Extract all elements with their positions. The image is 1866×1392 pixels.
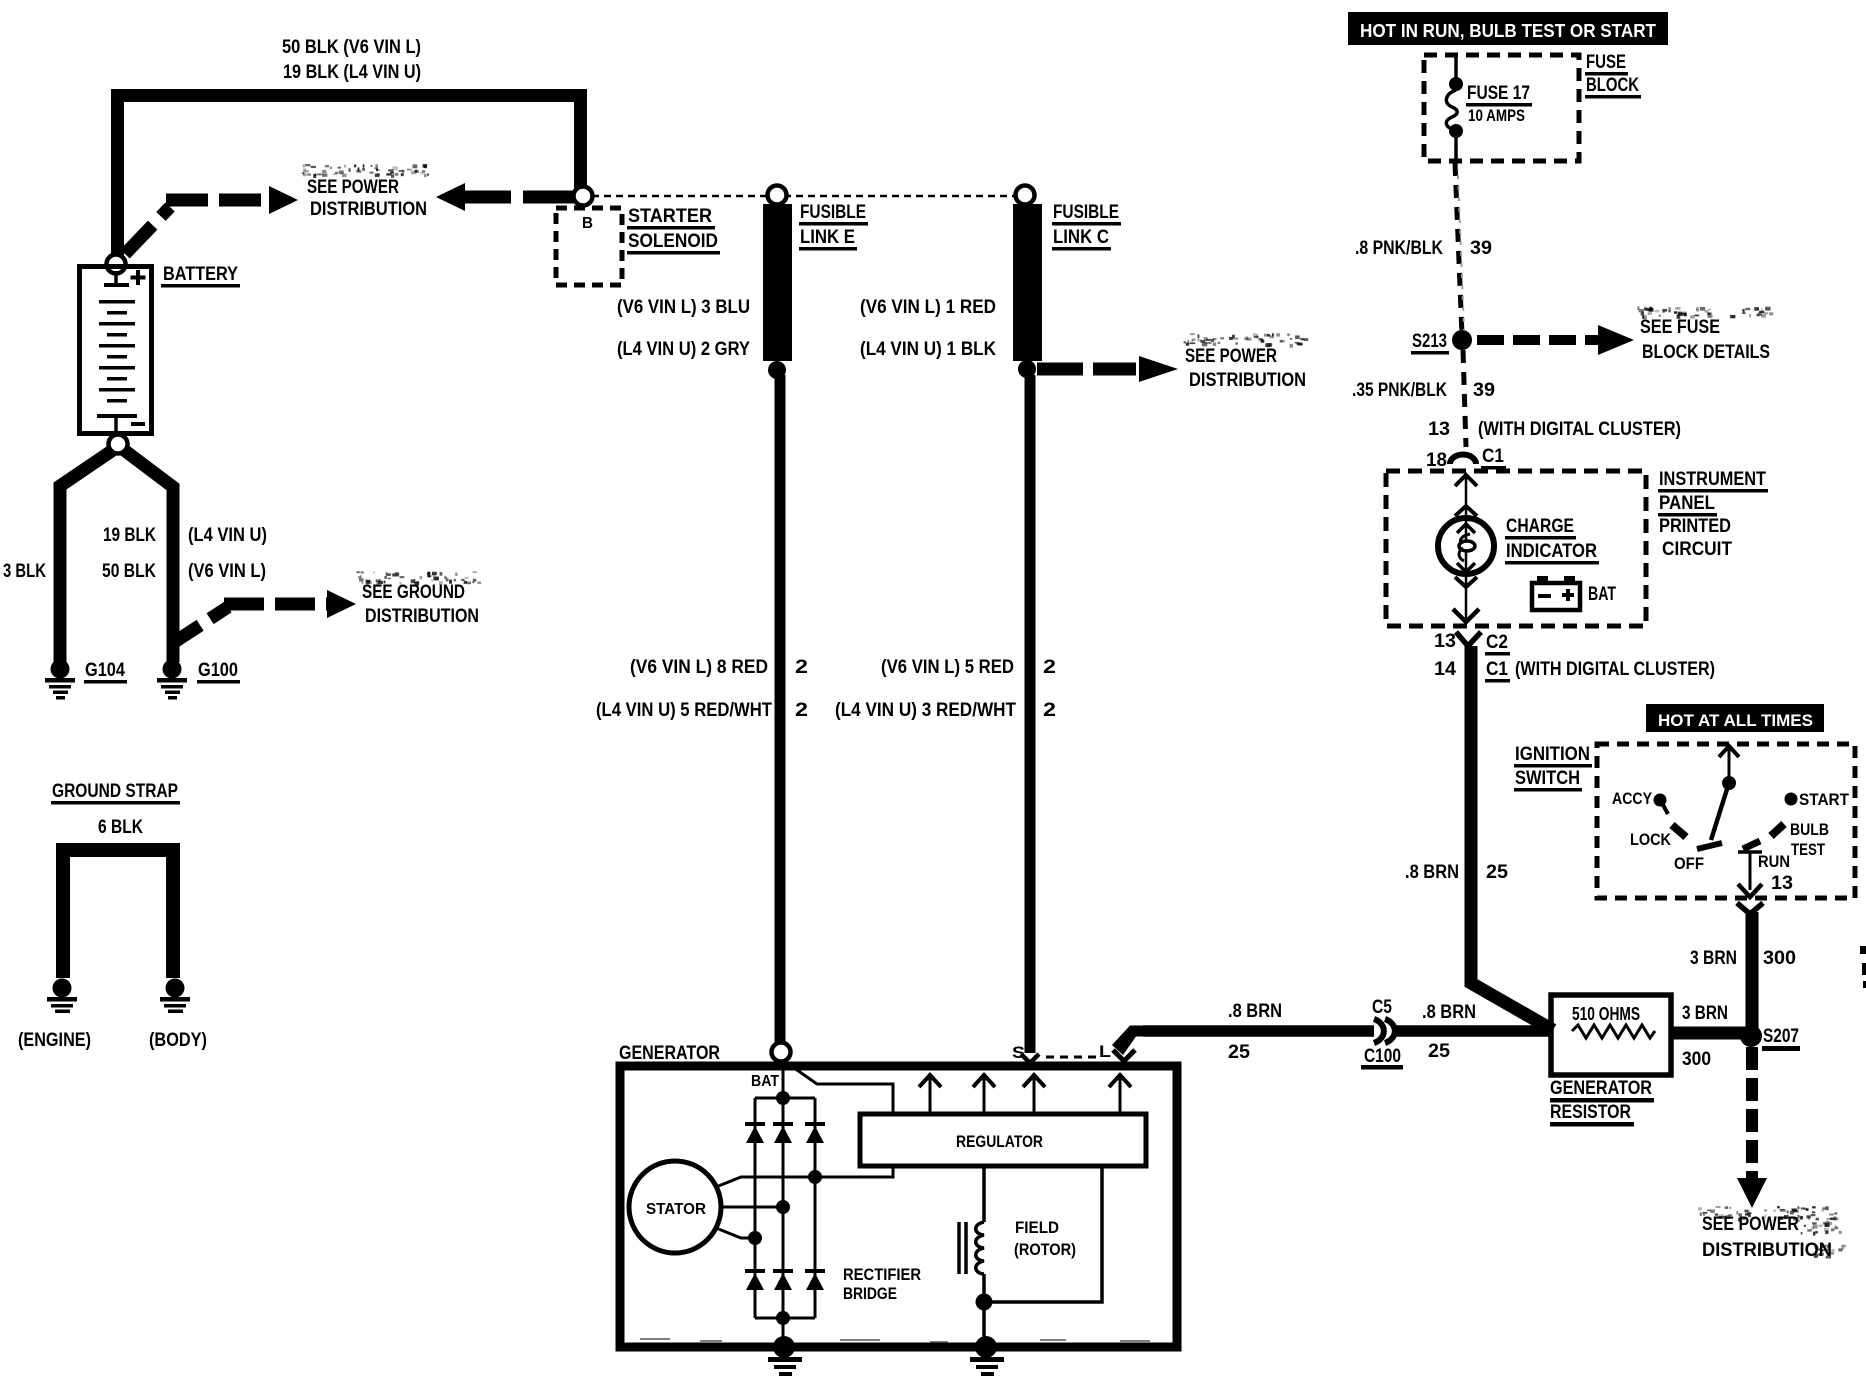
svg-text:TEST: TEST xyxy=(1791,840,1825,859)
field coil L1 xyxy=(976,1222,984,1274)
connector C2 V symbol xyxy=(1456,632,1481,646)
generator box xyxy=(620,1066,1177,1347)
svg-text:DISTRIBUTION: DISTRIBUTION xyxy=(1702,1240,1832,1261)
svg-text:.8 PNK/BLK: .8 PNK/BLK xyxy=(1355,238,1443,259)
svg-text:2: 2 xyxy=(1043,700,1056,721)
wire ground strap xyxy=(63,850,173,978)
wire field junction to ground xyxy=(982,1302,986,1345)
svg-text:(V6 VIN L) 5 RED: (V6 VIN L) 5 RED xyxy=(881,657,1014,678)
svg-text:BLOCK: BLOCK xyxy=(1586,75,1639,96)
resistor zigzag xyxy=(1572,1025,1655,1038)
svg-text:50 BLK: 50 BLK xyxy=(102,561,156,582)
fuse F17 bottom terminal xyxy=(1449,124,1463,138)
svg-text:SOLENOID: SOLENOID xyxy=(628,231,718,252)
node junction below fusible link E xyxy=(768,361,786,379)
svg-text:INDICATOR: INDICATOR xyxy=(1506,541,1597,562)
regulator S terminal arrow xyxy=(1033,1077,1036,1112)
svg-text:3 BRN: 3 BRN xyxy=(1682,1003,1728,1024)
svg-text:OFF: OFF xyxy=(1674,854,1704,873)
svg-text:13: 13 xyxy=(1771,873,1793,894)
svg-text:SWITCH: SWITCH xyxy=(1515,768,1580,789)
svg-text:2: 2 xyxy=(795,657,808,678)
svg-text:(ROTOR): (ROTOR) xyxy=(1014,1240,1076,1259)
battery plates xyxy=(97,300,137,418)
ignition feed arrow up xyxy=(1728,748,1731,779)
wire dashed from solenoid node to see power distribution xyxy=(463,191,577,204)
fuse F17 lead top xyxy=(1454,57,1458,80)
arrow see power distribution (bottom) xyxy=(1737,1178,1767,1208)
node fusible link E top xyxy=(768,186,787,205)
svg-text:FUSE: FUSE xyxy=(1586,52,1626,73)
svg-text:HOT IN RUN, BULB TEST OR START: HOT IN RUN, BULB TEST OR START xyxy=(1360,21,1656,41)
diode D6 xyxy=(805,1269,825,1290)
rectifier column 2 xyxy=(782,1098,785,1318)
svg-text:S213: S213 xyxy=(1412,331,1447,352)
svg-text:(L4 VIN U) 1 BLK: (L4 VIN U) 1 BLK xyxy=(860,339,996,360)
smudge above SEE POWER xyxy=(302,164,429,178)
svg-text:25: 25 xyxy=(1428,1041,1450,1062)
svg-text:19 BLK: 19 BLK xyxy=(103,525,156,546)
rectifier top rail xyxy=(755,1097,815,1100)
diode D1 xyxy=(745,1122,765,1143)
svg-text:STARTER: STARTER xyxy=(628,206,712,227)
svg-text:ACCY: ACCY xyxy=(1612,789,1653,808)
wire column 3 to regulator xyxy=(815,1166,893,1177)
svg-text:10 AMPS: 10 AMPS xyxy=(1468,106,1525,125)
svg-text:CHARGE: CHARGE xyxy=(1506,516,1574,537)
arrow down at ignition box bottom xyxy=(1738,884,1762,897)
wire battery negative to G100 xyxy=(124,450,173,662)
instrument panel printed circuit box xyxy=(1386,471,1646,626)
svg-text:SEE FUSE: SEE FUSE xyxy=(1640,317,1720,338)
ignition switch box xyxy=(1597,744,1855,898)
svg-text:BULB: BULB xyxy=(1790,820,1829,839)
wire dashed bus solenoid B to fusible links xyxy=(592,195,1022,198)
page edge marks xyxy=(1860,946,1866,988)
ground G100 xyxy=(157,660,187,700)
regulator sense arrow 2 xyxy=(983,1077,986,1112)
ground (body) xyxy=(160,979,190,1014)
connector V at L terminal xyxy=(1113,1050,1135,1061)
charge indicator bulb circle xyxy=(1438,518,1494,574)
svg-text:(V6 VIN L) 1 RED: (V6 VIN L) 1 RED xyxy=(860,297,996,318)
regulator box xyxy=(860,1114,1146,1166)
svg-text:HOT AT ALL TIMES: HOT AT ALL TIMES xyxy=(1658,711,1813,730)
svg-text:300: 300 xyxy=(1763,948,1796,969)
svg-text:SEE POWER: SEE POWER xyxy=(307,177,399,198)
stator lead 2 xyxy=(721,1206,783,1209)
wire dashed to see power distribution (from battery) xyxy=(125,207,170,254)
arrow to see power distribution (right, pointing left) xyxy=(436,183,465,211)
svg-text:6 BLK: 6 BLK xyxy=(98,817,143,838)
svg-text:SEE POWER: SEE POWER xyxy=(1185,346,1277,367)
svg-text:39: 39 xyxy=(1473,380,1495,401)
arrow out of charge indicator (bottom) xyxy=(1465,576,1468,620)
battery minus sign xyxy=(131,422,145,426)
wire dashed S207 to see power distribution xyxy=(1746,1047,1758,1180)
node splice S213 xyxy=(1452,330,1472,350)
node battery positive terminal xyxy=(107,255,126,274)
svg-text:BATTERY: BATTERY xyxy=(163,264,238,285)
svg-text:18: 18 xyxy=(1426,450,1447,471)
stator lead 3 xyxy=(716,1228,755,1238)
wire hatched fuse block to S213 xyxy=(1455,163,1462,335)
stator lead 1 xyxy=(716,1177,815,1187)
fuse F17 element xyxy=(1446,90,1457,130)
svg-text:(BODY): (BODY) xyxy=(149,1030,207,1051)
ignition lever xyxy=(1711,786,1728,840)
fusible link C bar xyxy=(1013,204,1042,361)
svg-text:FIELD: FIELD xyxy=(1015,1218,1059,1237)
position tick LOCK xyxy=(1672,825,1686,837)
svg-text:RESISTOR: RESISTOR xyxy=(1550,1102,1631,1123)
wire .8 BRN C100 to generator resistor xyxy=(1395,1025,1552,1037)
svg-text:RECTIFIER: RECTIFIER xyxy=(843,1265,921,1284)
ground (engine) xyxy=(47,979,77,1014)
position tick RUN contact xyxy=(1743,841,1760,849)
svg-text:19 BLK (L4 VIN U): 19 BLK (L4 VIN U) xyxy=(283,62,421,83)
wire battery positive to starter solenoid B xyxy=(118,96,581,263)
arrow see fuse block details xyxy=(1598,325,1634,355)
svg-text:INSTRUMENT: INSTRUMENT xyxy=(1659,469,1766,490)
wire hatched S213 to C1 xyxy=(1463,350,1466,447)
smudge above SEE POWER (middle) xyxy=(1184,333,1309,348)
svg-text:14: 14 xyxy=(1434,659,1456,680)
generator resistor box xyxy=(1551,995,1671,1075)
svg-text:(V6 VIN L) 8 RED: (V6 VIN L) 8 RED xyxy=(630,657,768,678)
wire battery negative to G104 xyxy=(60,450,113,663)
wire L terminal elbow to .8 BRN xyxy=(1112,1026,1147,1056)
banner HOT AT ALL TIMES xyxy=(1646,704,1824,732)
position dot ACCY xyxy=(1654,794,1667,807)
rectifier bottom rail xyxy=(755,1317,815,1320)
connector C1 arc xyxy=(1450,455,1476,465)
wire BAT node diagonal to regulator xyxy=(787,1063,893,1114)
svg-text:GENERATOR: GENERATOR xyxy=(619,1043,720,1064)
svg-text:.35 PNK/BLK: .35 PNK/BLK xyxy=(1352,380,1447,401)
ignition pivot xyxy=(1722,776,1736,790)
svg-text:LOCK: LOCK xyxy=(1630,830,1672,849)
node rectifier bottom junction xyxy=(776,1311,790,1325)
diode D3 xyxy=(805,1122,825,1143)
ground (rectifier) xyxy=(768,1336,802,1376)
wire dashed S213 to see fuse block details xyxy=(1477,335,1598,345)
diode D5 xyxy=(773,1269,793,1290)
ground (field) xyxy=(970,1336,1004,1376)
wire RUN contact down xyxy=(1749,853,1752,890)
node rectifier top junction xyxy=(776,1091,790,1105)
wire .8 BRN charge indicator to generator resistor xyxy=(1471,646,1553,1030)
svg-text:BRIDGE: BRIDGE xyxy=(843,1284,897,1303)
svg-text:50 BLK (V6 VIN L): 50 BLK (V6 VIN L) xyxy=(282,37,421,58)
svg-text:L: L xyxy=(1099,1042,1111,1061)
svg-text:FUSIBLE: FUSIBLE xyxy=(800,202,866,223)
svg-text:C1: C1 xyxy=(1486,659,1508,680)
starter solenoid box xyxy=(556,208,622,285)
svg-text:(V6 VIN L) 3 BLU: (V6 VIN L) 3 BLU xyxy=(617,297,750,318)
fuse F17 lead bottom xyxy=(1454,135,1458,160)
position tick BULB TEST xyxy=(1771,824,1784,836)
wire 3 BRN ignition to S207 xyxy=(1746,912,1759,1030)
svg-text:B: B xyxy=(582,215,593,232)
node splice S207 xyxy=(1740,1025,1762,1047)
wire fusible link E to generator BAT xyxy=(775,375,786,1046)
svg-text:(V6 VIN L): (V6 VIN L) xyxy=(188,561,266,582)
svg-text:GENERATOR: GENERATOR xyxy=(1550,1078,1652,1099)
svg-text:STATOR: STATOR xyxy=(646,1201,706,1218)
diode D2 xyxy=(773,1122,793,1143)
svg-text:BLOCK DETAILS: BLOCK DETAILS xyxy=(1642,342,1770,363)
svg-text:BAT: BAT xyxy=(751,1073,779,1090)
svg-text:FUSE 17: FUSE 17 xyxy=(1467,83,1530,104)
charge indicator filament xyxy=(1465,521,1468,573)
diode D4 xyxy=(745,1269,765,1290)
wire fusible link C to generator S xyxy=(1025,375,1036,1053)
smudge above SEE FUSE xyxy=(1637,306,1773,319)
connector V below ignition switch xyxy=(1737,903,1763,914)
svg-text:C1: C1 xyxy=(1482,446,1504,467)
node junction column 3 xyxy=(808,1170,822,1184)
wire rectifier to ground xyxy=(782,1318,785,1345)
svg-text:LINK C: LINK C xyxy=(1053,227,1109,248)
smudge around SEE POWER (bottom) xyxy=(1698,1206,1838,1222)
position dot START xyxy=(1785,793,1798,806)
svg-text:300: 300 xyxy=(1682,1049,1711,1070)
svg-text:39: 39 xyxy=(1470,238,1492,259)
svg-text:3 BLK: 3 BLK xyxy=(3,561,46,582)
svg-text:GROUND STRAP: GROUND STRAP xyxy=(52,781,178,802)
svg-text:(L4 VIN U) 5 RED/WHT: (L4 VIN U) 5 RED/WHT xyxy=(596,700,772,721)
svg-text:DISTRIBUTION: DISTRIBUTION xyxy=(310,199,427,220)
svg-text:IGNITION: IGNITION xyxy=(1515,744,1590,765)
connector V at S terminal xyxy=(1021,1054,1039,1063)
svg-text:SEE GROUND: SEE GROUND xyxy=(362,582,465,603)
svg-text:PANEL: PANEL xyxy=(1659,493,1715,514)
banner HOT IN RUN, BULB TEST OR START xyxy=(1348,12,1668,45)
svg-text:510 OHMS: 510 OHMS xyxy=(1572,1004,1640,1024)
svg-text:C100: C100 xyxy=(1364,1046,1401,1067)
svg-text:DISTRIBUTION: DISTRIBUTION xyxy=(365,606,479,627)
smudge above SEE GROUND xyxy=(357,571,482,585)
rectifier column 3 xyxy=(814,1098,817,1318)
arrow into charge indicator (top) xyxy=(1465,474,1468,516)
field rotor wire from regulator xyxy=(982,1166,986,1222)
arrow see ground distribution xyxy=(327,590,356,618)
regulator sense arrow 1 xyxy=(929,1077,932,1112)
svg-text:13: 13 xyxy=(1428,419,1450,440)
svg-text:BAT: BAT xyxy=(1588,584,1616,605)
node field junction xyxy=(976,1294,993,1311)
svg-text:2: 2 xyxy=(1043,657,1056,678)
svg-text:DISTRIBUTION: DISTRIBUTION xyxy=(1189,370,1306,391)
arrow to see power distribution (left) xyxy=(269,186,298,214)
svg-text:.8 BRN: .8 BRN xyxy=(1422,1002,1476,1023)
stator circle xyxy=(629,1161,721,1253)
battery icon BAT xyxy=(1532,576,1580,610)
svg-text:(WITH DIGITAL CLUSTER): (WITH DIGITAL CLUSTER) xyxy=(1478,419,1681,440)
fuse F17 top terminal xyxy=(1449,77,1463,91)
svg-text:G104: G104 xyxy=(85,660,125,681)
battery bottom stem xyxy=(114,418,118,438)
wire .8 BRN generator L to C100 xyxy=(1143,1025,1374,1037)
svg-text:(ENGINE): (ENGINE) xyxy=(18,1030,91,1051)
svg-text:(WITH DIGITAL CLUSTER): (WITH DIGITAL CLUSTER) xyxy=(1515,659,1715,680)
wire field coil to junction xyxy=(982,1274,986,1300)
scan noise along generator bottom xyxy=(640,1338,1150,1343)
fusible link E bar xyxy=(763,204,792,361)
wire dashed to see ground distribution xyxy=(170,607,228,645)
battery plus sign xyxy=(131,270,146,285)
wire 3 BRN resistor to S207 xyxy=(1671,1027,1748,1040)
svg-text:PRINTED: PRINTED xyxy=(1659,516,1731,537)
svg-text:REGULATOR: REGULATOR xyxy=(956,1132,1043,1151)
svg-text:LINK E: LINK E xyxy=(800,227,855,248)
chevron above charge indicator xyxy=(1455,506,1477,516)
svg-text:RUN: RUN xyxy=(1758,852,1790,871)
svg-text:13: 13 xyxy=(1434,631,1456,652)
battery B1 xyxy=(80,267,152,434)
connector C100 symbol xyxy=(1374,1019,1384,1043)
svg-text:.8 BRN: .8 BRN xyxy=(1405,862,1459,883)
ground G104 xyxy=(45,660,75,700)
field core bars xyxy=(959,1222,966,1274)
svg-text:25: 25 xyxy=(1228,1042,1250,1063)
wire dashed S to L xyxy=(1046,1056,1100,1059)
chevron below charge indicator xyxy=(1455,577,1477,587)
battery top terminal xyxy=(114,271,118,284)
node solenoid B terminal xyxy=(574,187,593,206)
svg-text:SEE POWER: SEE POWER xyxy=(1702,1214,1799,1235)
node generator BAT terminal xyxy=(772,1043,791,1062)
svg-text:2: 2 xyxy=(795,700,808,721)
regulator L terminal arrow xyxy=(1119,1077,1122,1112)
node junction column 1 xyxy=(748,1231,762,1245)
node fusible link C top xyxy=(1016,186,1035,205)
node junction below fusible link C xyxy=(1018,360,1036,378)
node battery negative terminal xyxy=(109,435,128,454)
wire field loop to regulator right xyxy=(984,1166,1102,1302)
svg-text:C2: C2 xyxy=(1486,632,1508,653)
svg-text:25: 25 xyxy=(1486,862,1508,883)
arrow see power distribution (middle) xyxy=(1139,356,1178,382)
svg-text:G100: G100 xyxy=(198,660,238,681)
svg-text:3 BRN: 3 BRN xyxy=(1690,948,1737,969)
svg-text:FUSIBLE: FUSIBLE xyxy=(1053,202,1119,223)
wire dashed to see power distribution (fusible link C) xyxy=(1037,363,1136,376)
svg-text:START: START xyxy=(1799,790,1850,809)
svg-text:CIRCUIT: CIRCUIT xyxy=(1662,539,1732,560)
fuse block box xyxy=(1424,55,1579,161)
svg-text:.8 BRN: .8 BRN xyxy=(1228,1001,1282,1022)
wire BAT node to rectifier xyxy=(782,1060,785,1095)
svg-text:C5: C5 xyxy=(1372,997,1392,1018)
svg-text:(L4 VIN U) 2 GRY: (L4 VIN U) 2 GRY xyxy=(617,339,750,360)
svg-text:S207: S207 xyxy=(1763,1026,1799,1047)
svg-text:(L4 VIN U) 3 RED/WHT: (L4 VIN U) 3 RED/WHT xyxy=(835,700,1016,721)
rectifier column 1 xyxy=(754,1098,757,1318)
node junction column 2 xyxy=(776,1200,790,1214)
svg-text:(L4 VIN U): (L4 VIN U) xyxy=(188,525,267,546)
